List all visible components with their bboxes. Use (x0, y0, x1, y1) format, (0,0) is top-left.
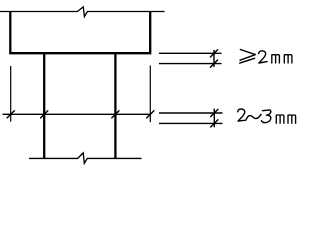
top plate (thick rectangle) (10, 12, 150, 54)
upper dimension: vertical dimension line (213, 50, 215, 67)
left extension line (10, 66, 12, 122)
digit 3 (261, 110, 270, 123)
right extension line (149, 66, 151, 123)
lower dimension: second leader line (159, 122, 223, 124)
bottom continuation line with break symbol (29, 153, 142, 163)
tick at right wall (112, 111, 119, 118)
left wall below plate (43, 53, 45, 158)
letter m (lower first) (276, 115, 284, 123)
label ">=2 mm" (240, 50, 292, 64)
letter m (lower second) (288, 115, 296, 123)
upper dimension: first leader line (159, 52, 222, 54)
letter m (upper second) (284, 55, 292, 63)
tick at left wall (41, 111, 48, 118)
digit 2 (upper) (259, 51, 268, 63)
lower dimension: tick top (211, 109, 218, 116)
tilde (246, 114, 261, 119)
letter m (upper first) (272, 55, 280, 63)
lower dimension: vertical dimension line (213, 109, 215, 128)
top continuation line with break symbol (0, 7, 165, 17)
upper dimension: second leader line (159, 63, 222, 65)
digit 2 (lower) (238, 109, 246, 121)
lower dimension: first leader line (159, 112, 223, 114)
long dimension line (lower) (3, 113, 151, 115)
lower dimension: tick bottom (211, 120, 218, 127)
greater-or-equal symbol (240, 50, 256, 64)
right wall below plate (114, 53, 116, 158)
upper dimension: tick bottom (210, 60, 217, 67)
upper dimension: tick top (210, 50, 217, 57)
tick at right extension (147, 111, 154, 118)
label "2~3 mm" (238, 109, 296, 123)
tick at left extension (7, 111, 14, 118)
